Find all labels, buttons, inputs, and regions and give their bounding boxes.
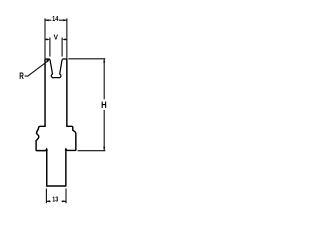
part left edge: column, step-out, curly web, foot, lower shank	[36, 59, 47, 186]
svg-text:V: V	[54, 33, 58, 42]
svg-text:14: 14	[52, 14, 58, 23]
extension line from part top right corner to dimension H	[68, 58, 105, 60]
extension line right of dimension V	[61, 38, 63, 57]
leader line from R to groove lip	[25, 61, 48, 76]
svg-text:H: H	[101, 100, 107, 111]
arrowhead of R leader at groove lip	[46, 59, 50, 63]
arrowhead bottom of dimension H	[103, 147, 105, 151]
small fillet spike at right foot / shank junction	[65, 149, 67, 151]
dimension line 14, right tail	[59, 19, 67, 21]
arrowhead right of dimension 14	[63, 19, 67, 21]
dimension line H, upper segment	[103, 59, 105, 99]
dimension line 14, left tail	[45, 19, 51, 21]
svg-text:13: 13	[52, 195, 58, 204]
extension line right of dimension 13	[65, 189, 67, 204]
dimension V outside tail, left	[45, 38, 48, 40]
arrowhead of dimension V pointing left at right extension	[62, 38, 66, 40]
arrowhead right of dimension 13	[62, 200, 66, 202]
dimension line 13, left tail	[46, 200, 50, 202]
part top face with V-groove (lips at x=49.9 and x=62.1, rounded groove bottom)	[45, 59, 67, 78]
arrowhead of dimension V pointing right at left extension	[46, 38, 50, 40]
extension line left of dimension 14	[44, 18, 46, 59]
arrowhead top of dimension H	[103, 59, 105, 63]
break (cut-off) line at bottom of shank	[46, 185, 66, 187]
extension line right of dimension 14	[66, 18, 68, 59]
dimension line 13, right tail	[62, 200, 66, 202]
svg-text:R: R	[19, 71, 24, 81]
dimension line H, lower segment	[103, 110, 105, 151]
part right edge: column, step-out, web flare, foot, lower shank	[66, 59, 76, 186]
extension line left of dimension 13	[45, 189, 47, 204]
extension line from foot bottom to dimension H	[78, 150, 106, 152]
small fillet spike at left foot / shank junction	[46, 149, 48, 151]
arrowhead left of dimension 13	[46, 200, 50, 202]
extension line left of dimension V	[49, 38, 51, 57]
arrowhead left of dimension 14	[45, 19, 49, 21]
dimension V outside tail, right	[65, 38, 68, 40]
